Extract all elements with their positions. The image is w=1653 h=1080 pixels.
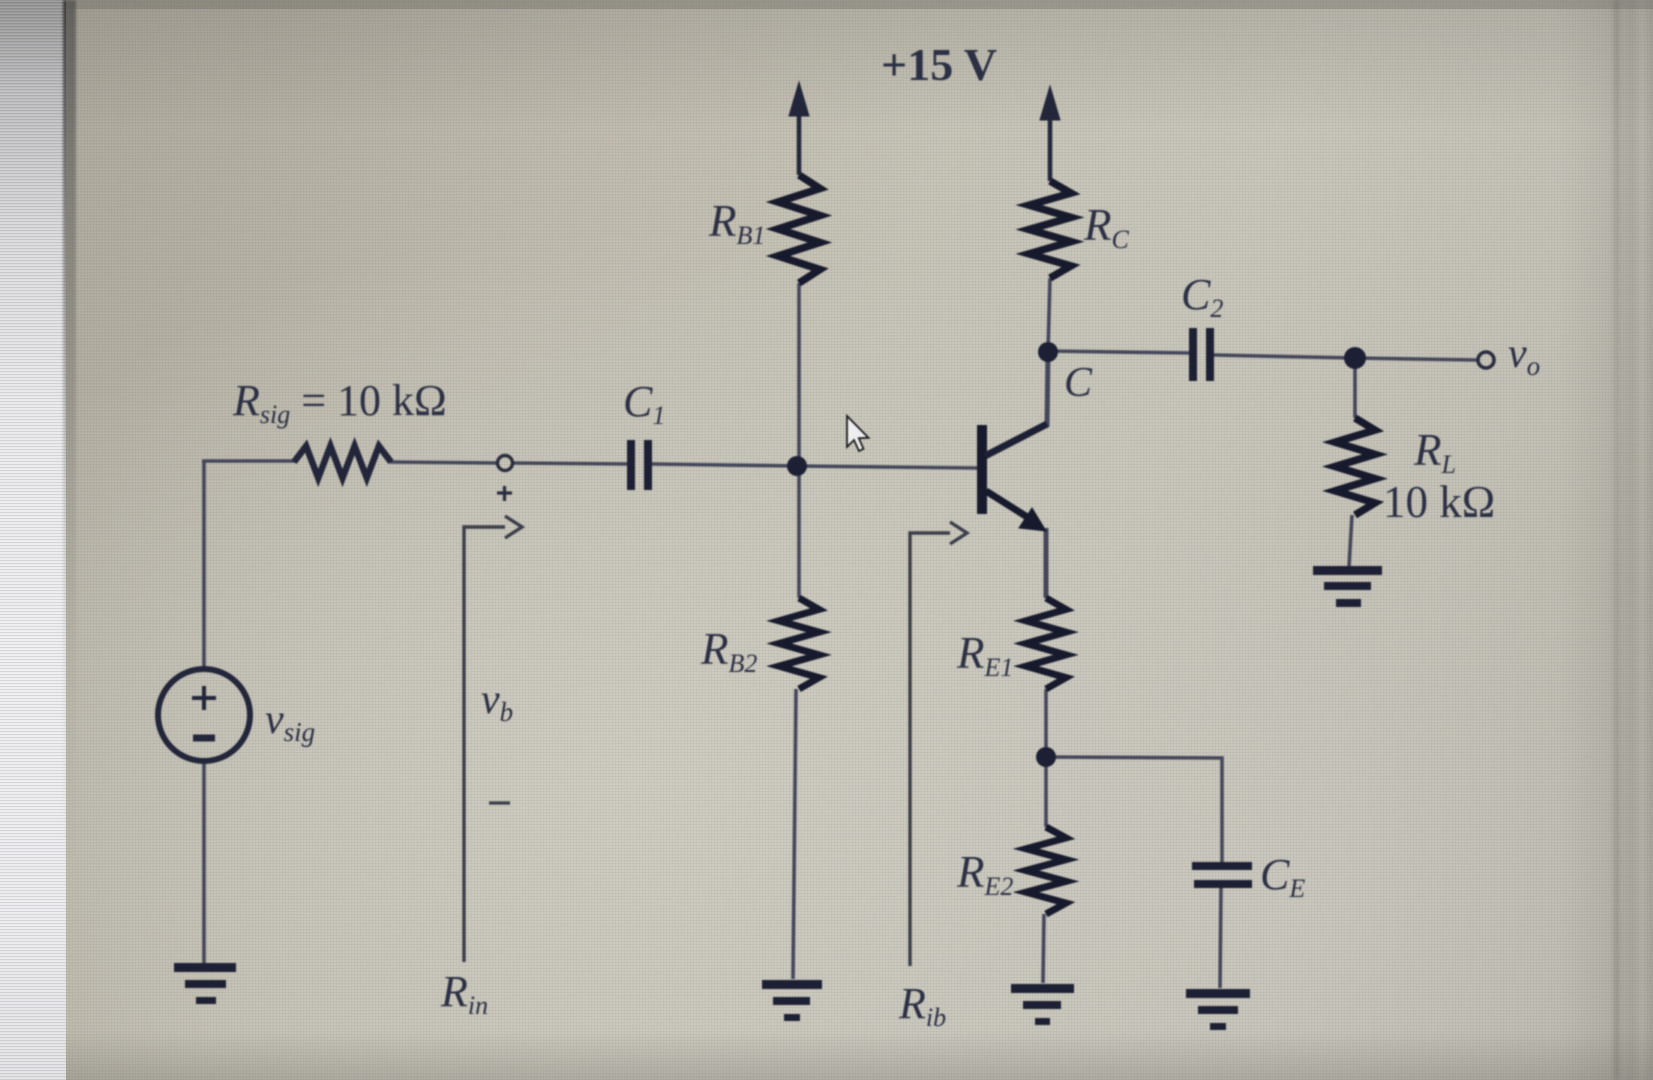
supply arrow above RC	[1040, 86, 1060, 181]
ground: RE2	[1011, 984, 1074, 1025]
right fold line	[1614, 0, 1619, 1080]
resistor Rsig	[294, 446, 391, 478]
wire: RB2 bottom to ground	[793, 689, 796, 979]
wire: C2 to output node	[1214, 355, 1355, 358]
wire: RC bottom to collector node	[1048, 278, 1050, 352]
wire: output node to vo terminal	[1355, 358, 1477, 360]
resistor RE1	[1026, 598, 1066, 689]
node dot: collector node C	[1038, 342, 1058, 362]
capacitor C2	[1189, 328, 1214, 381]
top edge dark line	[0, 0, 1653, 9]
open terminal at vo	[1478, 352, 1494, 368]
svg-text:+15 V: +15 V	[881, 39, 997, 90]
right fold shading	[1560, 0, 1653, 1080]
resistor RB1	[778, 175, 820, 283]
node dot: emitter node	[1036, 747, 1056, 767]
wire: Rsig to open terminal	[390, 462, 498, 463]
vsig source circle	[158, 669, 250, 761]
bottom darker band	[0, 1030, 1653, 1080]
capacitor C1	[627, 440, 652, 490]
resistor RB2	[779, 598, 819, 689]
ground: RL	[1313, 566, 1382, 607]
wire: left vertical of source loop	[202, 461, 206, 668]
wire: collector node to C2	[1048, 351, 1190, 353]
node dot: base junction	[787, 456, 807, 476]
wire: junction down to RB2	[797, 466, 801, 598]
node dot: output node	[1344, 347, 1366, 369]
left white strip	[0, 0, 66, 1080]
minus sign near vb bottom	[489, 801, 510, 804]
resistor RC	[1029, 181, 1071, 278]
ground: vsig	[174, 963, 236, 1004]
transistor Q1 base bar	[977, 425, 987, 514]
ground: CE	[1186, 989, 1250, 1030]
wire: RL bottom to ground	[1349, 515, 1352, 567]
left strip scanlines	[0, 0, 66, 1080]
capacitor CE	[1192, 862, 1252, 888]
top darker band	[0, 0, 1653, 130]
open terminal at vb	[498, 456, 513, 471]
wire: collector node down to transistor	[1047, 352, 1048, 427]
wire: emitter node down to RE2	[1044, 757, 1048, 827]
plus sign below vb terminal	[497, 486, 512, 501]
wire: emitter down to RE1	[1044, 528, 1049, 598]
Rin measurement arrow	[464, 516, 522, 962]
wire: RE1 bottom to emitter node	[1044, 689, 1048, 757]
wire: RB1 junction up to RB1	[797, 283, 801, 466]
wire: output node down to RL	[1353, 358, 1357, 418]
mouse cursor	[847, 416, 869, 451]
ground: RB2	[762, 980, 822, 1021]
resistor RE2	[1026, 827, 1066, 914]
supply arrow above RB1	[789, 82, 809, 175]
vsig plus sign	[192, 686, 216, 710]
wire: C1 to base junction	[652, 464, 797, 466]
wire: junction to transistor base	[797, 466, 978, 468]
wire: terminal to C1	[513, 463, 629, 464]
Rib measurement arrow	[910, 522, 967, 966]
transistor Q1 emitter diagonal with arrow	[986, 491, 1046, 531]
left dark border line fading downward	[63, 0, 76, 1080]
svg-text:C: C	[1064, 360, 1093, 406]
transistor Q1 collector diagonal	[985, 424, 1047, 456]
resistor RL	[1335, 418, 1375, 515]
wire: CE bottom to ground	[1220, 888, 1221, 988]
svg-text:10 kΩ: 10 kΩ	[1383, 477, 1495, 527]
wire: source bottom to ground	[202, 762, 206, 966]
wire: emitter node right to CE branch	[1046, 757, 1222, 862]
wire: main top-left horizontal to Rsig	[202, 459, 295, 463]
wire: RE2 bottom to ground	[1043, 914, 1044, 983]
vsig minus sign	[193, 735, 215, 742]
